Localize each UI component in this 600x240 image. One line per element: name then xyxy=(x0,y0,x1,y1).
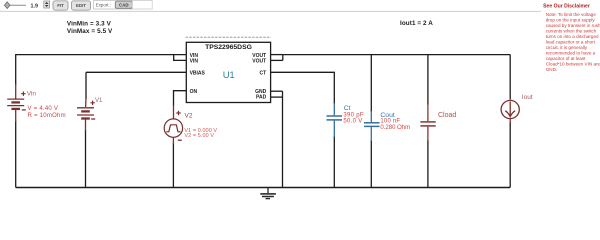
svg-text:EDIT: EDIT xyxy=(76,3,86,8)
V2 circle xyxy=(164,119,182,137)
svg-text:VBIAS: VBIAS xyxy=(190,70,206,76)
toolbar Export box xyxy=(94,1,133,9)
wire CT pin to Ct xyxy=(271,72,335,104)
wire top-right bus xyxy=(283,54,510,56)
V2 top lead xyxy=(173,105,175,119)
wire PAD stub xyxy=(271,96,283,98)
V2 bottom lead xyxy=(172,137,174,144)
plus mark V2 xyxy=(176,111,180,115)
svg-text:Export :: Export : xyxy=(96,2,111,7)
svg-text:Cload*10 between VIN and: Cload*10 between VIN and xyxy=(546,61,600,66)
svg-text:load capacitor or a short: load capacitor or a short xyxy=(546,39,596,44)
V2 pulse waveform xyxy=(166,125,180,132)
svg-text:VIN: VIN xyxy=(190,58,199,64)
minus mark V2 xyxy=(178,139,182,141)
wire Vin bottom lead lower xyxy=(15,121,17,188)
Iout arrow head xyxy=(505,111,515,117)
wire V1 bottom lead lower xyxy=(85,130,87,188)
svg-text:100 nF: 100 nF xyxy=(380,119,400,125)
svg-text:Note: To limit the voltage: Note: To limit the voltage xyxy=(546,12,597,17)
svg-text:turns on into a discharged: turns on into a discharged xyxy=(546,34,599,39)
svg-text:V2 = 5.00 V: V2 = 5.00 V xyxy=(184,133,214,139)
wire GND/PAD column xyxy=(282,91,284,187)
svg-text:Cload: Cload xyxy=(438,112,456,119)
svg-text:GND.: GND. xyxy=(546,67,557,72)
svg-text:Vin: Vin xyxy=(27,90,37,97)
svg-text:V1: V1 xyxy=(95,98,103,104)
minus mark V1 xyxy=(91,118,95,120)
svg-text:R = 10mOhm: R = 10mOhm xyxy=(28,113,66,119)
Iout circle xyxy=(501,100,519,118)
wire V2 bottom lead lower xyxy=(172,143,174,188)
net highlight line above U1 xyxy=(186,36,272,38)
ground bar 2 xyxy=(262,196,274,198)
svg-text:TPS22965DSG: TPS22965DSG xyxy=(205,44,252,51)
wire GND stub xyxy=(271,90,283,92)
svg-text:VinMin = 3.3 V: VinMin = 3.3 V xyxy=(67,20,112,27)
battery Vin leads xyxy=(15,84,17,99)
svg-text:Iout: Iout xyxy=(522,94,533,101)
wire Ct lower xyxy=(333,136,335,188)
Iout arrow shaft xyxy=(509,102,511,117)
op-amp U1 body xyxy=(186,42,270,102)
wire VIN2 jog xyxy=(174,55,187,61)
wire VOUT2 stub xyxy=(271,59,283,61)
wire VOUT connector xyxy=(282,55,284,61)
svg-text:50.0 V: 50.0 V xyxy=(343,119,362,125)
ground stub xyxy=(267,188,269,193)
capacitor Ct plates xyxy=(327,115,343,117)
svg-text:Iout1 = 2 A: Iout1 = 2 A xyxy=(400,20,433,27)
svg-text:ON: ON xyxy=(190,89,198,95)
capacitor Ct top lead xyxy=(333,103,335,115)
svg-text:See Our Disclaimer: See Our Disclaimer xyxy=(543,4,590,10)
svg-text:U1: U1 xyxy=(223,70,235,81)
capacitor Cload plates xyxy=(420,121,435,123)
wire VBIAS from V1 xyxy=(86,71,186,73)
svg-text:PAD: PAD xyxy=(256,95,267,101)
capacitor Cout top lead xyxy=(370,111,372,122)
minus mark Vin xyxy=(22,109,26,111)
wire Iout lower xyxy=(509,122,511,188)
toolbar slider track xyxy=(10,4,27,6)
svg-text:CAD: CAD xyxy=(119,2,129,7)
wire Cout upper xyxy=(370,55,372,112)
ground bar 3 xyxy=(266,198,271,200)
svg-text:VOUT: VOUT xyxy=(252,58,266,64)
wire ON to V2 xyxy=(174,91,187,106)
battery Vin plates xyxy=(7,98,24,100)
Iout lead below xyxy=(509,119,511,123)
svg-text:currents when the switch: currents when the switch xyxy=(546,28,597,33)
wire VOUT1 stub xyxy=(271,54,283,56)
battery V1 plates xyxy=(77,107,94,109)
toolbar slider handle xyxy=(4,2,10,9)
toolbar empty box xyxy=(132,1,152,9)
capacitor Cout bottom lead xyxy=(370,127,372,141)
capacitor Ct bottom lead xyxy=(333,121,335,137)
capacitor Cload top lead xyxy=(427,104,429,121)
disclaimer note paragraph xyxy=(546,12,600,72)
wire Vin top lead upper xyxy=(15,54,17,85)
svg-text:1.9: 1.9 xyxy=(31,3,39,9)
wire bottom ground bus xyxy=(16,187,511,189)
svg-text:V2: V2 xyxy=(185,113,193,120)
svg-text:CT: CT xyxy=(260,70,267,76)
svg-text:V = 4.40 V: V = 4.40 V xyxy=(28,106,59,112)
toolbar spinner xyxy=(44,1,50,8)
svg-text:0.280 Ohm: 0.280 Ohm xyxy=(380,125,410,131)
toolbar CAD button xyxy=(115,1,132,8)
toolbar separator line xyxy=(0,10,541,12)
svg-text:FIT: FIT xyxy=(57,3,64,8)
wire Cout lower xyxy=(370,140,372,188)
toolbar FIT button xyxy=(53,1,68,10)
wire Cload upper xyxy=(427,55,429,105)
capacitor Cload bottom lead xyxy=(427,127,429,141)
toolbar EDIT button xyxy=(72,1,91,10)
svg-text:drop on the input supply: drop on the input supply xyxy=(546,17,596,22)
wire Cload lower xyxy=(427,140,429,188)
battery V1 leads xyxy=(85,98,87,107)
svg-text:recommended to have a: recommended to have a xyxy=(546,50,596,55)
wire V1 top lead upper xyxy=(85,72,87,99)
ground bar 1 xyxy=(260,193,276,195)
wire top-left Vin to VIN1 xyxy=(16,54,187,56)
wire Iout upper xyxy=(509,55,511,100)
plus mark V1 xyxy=(90,101,94,105)
svg-text:VinMax = 5.5 V: VinMax = 5.5 V xyxy=(67,28,113,35)
svg-text:circuit, it is generally: circuit, it is generally xyxy=(546,45,588,50)
plus mark Vin xyxy=(21,92,25,96)
svg-text:Ct: Ct xyxy=(344,105,351,112)
capacitor Cout plates xyxy=(364,122,380,124)
svg-text:caused by transient in rush: caused by transient in rush xyxy=(546,23,600,28)
svg-text:capacitor of at least: capacitor of at least xyxy=(546,56,587,61)
